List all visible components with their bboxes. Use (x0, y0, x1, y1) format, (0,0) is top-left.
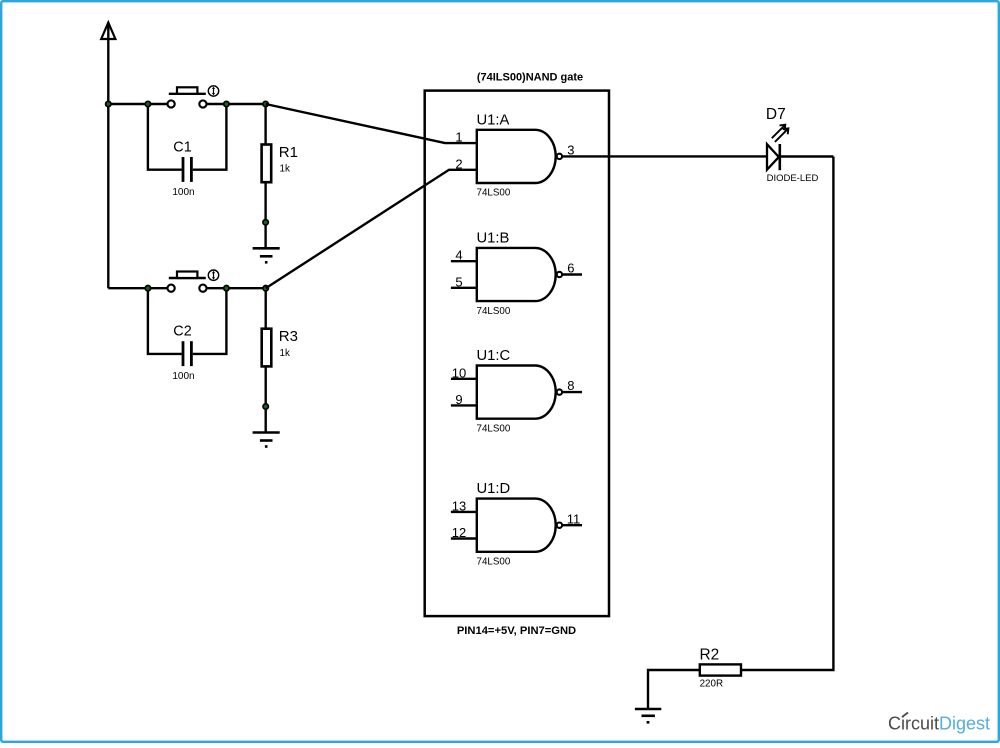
svg-text:DIODE-LED: DIODE-LED (767, 173, 819, 184)
svg-text:74LS00: 74LS00 (477, 306, 511, 317)
svg-text:U1:B: U1:B (477, 230, 510, 246)
svg-text:11: 11 (567, 512, 581, 527)
svg-text:R3: R3 (279, 328, 298, 345)
svg-text:4: 4 (455, 248, 462, 263)
svg-text:220R: 220R (700, 678, 723, 689)
svg-text:2: 2 (455, 156, 462, 171)
svg-text:R2: R2 (700, 647, 720, 664)
svg-text:U1:A: U1:A (477, 112, 510, 128)
svg-text:C2: C2 (173, 324, 191, 340)
svg-text:100n: 100n (172, 187, 194, 198)
svg-text:74LS00: 74LS00 (477, 423, 511, 434)
svg-text:C1: C1 (173, 140, 191, 156)
svg-text:1k: 1k (280, 164, 290, 175)
svg-text:9: 9 (455, 392, 462, 407)
svg-text:1k: 1k (280, 348, 290, 359)
svg-text:74LS00: 74LS00 (477, 188, 511, 199)
svg-text:8: 8 (567, 378, 574, 393)
svg-text:13: 13 (452, 498, 466, 513)
svg-text:74LS00: 74LS00 (477, 557, 511, 568)
svg-text:1: 1 (455, 130, 462, 145)
svg-text:6: 6 (567, 261, 574, 276)
svg-text:5: 5 (455, 274, 462, 289)
svg-text:(74ILS00)NAND gate: (74ILS00)NAND gate (477, 72, 583, 84)
svg-text:D7: D7 (766, 106, 786, 123)
svg-text:12: 12 (452, 525, 466, 540)
svg-text:100n: 100n (172, 371, 194, 382)
svg-text:3: 3 (567, 142, 574, 157)
svg-text:10: 10 (452, 365, 466, 380)
svg-text:R1: R1 (279, 144, 298, 161)
svg-text:U1:D: U1:D (477, 481, 511, 497)
svg-text:U1:C: U1:C (477, 348, 511, 364)
svg-text:PIN14=+5V, PIN7=GND: PIN14=+5V, PIN7=GND (457, 625, 576, 637)
